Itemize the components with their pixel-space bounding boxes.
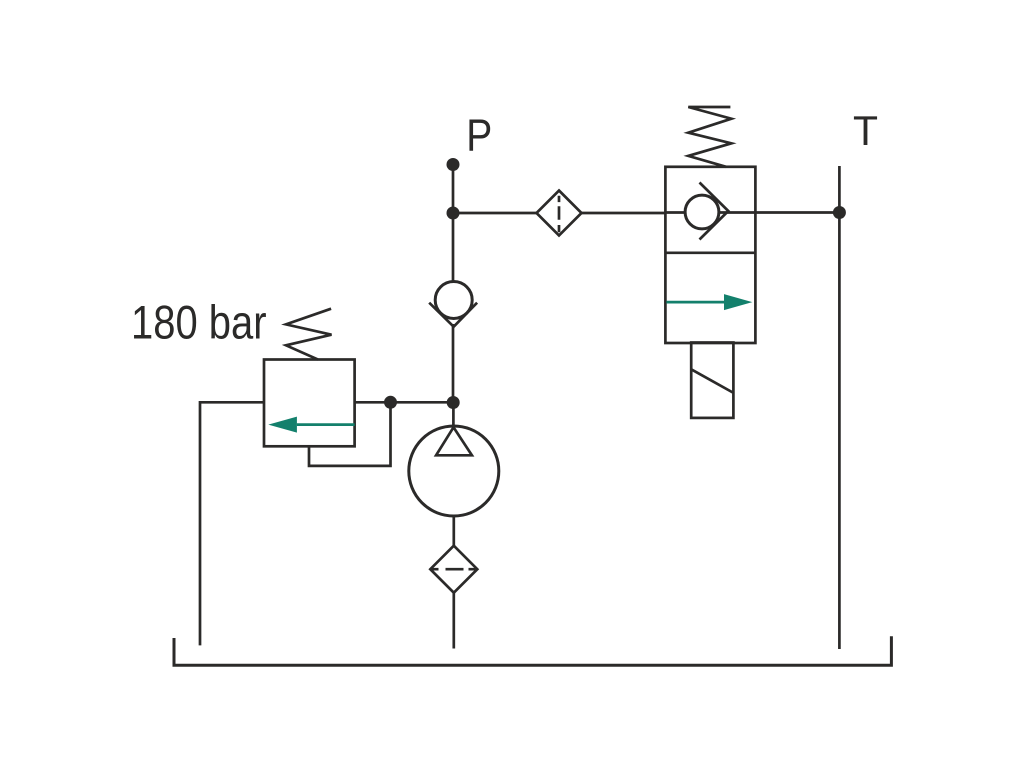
wire pump junction to pump inlet (452, 403, 455, 428)
wire pump to strainer (452, 516, 455, 546)
filter F1 dashed element (558, 196, 561, 233)
wire P vertical down to check valve (452, 165, 455, 283)
strainer F2 diamond (430, 546, 477, 593)
node pump junction dot (447, 396, 460, 409)
wire valve V1 to T line (756, 211, 840, 214)
valve V1 check seat (700, 183, 729, 240)
node P junction dot (447, 207, 460, 220)
solenoid S1 box (691, 343, 733, 418)
check valve CV1 seat (429, 303, 477, 327)
wire strainer to tank (452, 593, 455, 649)
valve V1 body (665, 167, 755, 343)
svg-text:P: P (466, 109, 492, 160)
relief valve RV1 body (264, 360, 355, 447)
valve V1 check ball (685, 195, 719, 229)
tank T1 (174, 636, 891, 665)
relief valve RV1 flow arrow (268, 417, 354, 433)
svg-text:T: T (853, 107, 878, 154)
valve V1 spring (688, 107, 731, 167)
filter F1 diamond (537, 191, 582, 236)
svg-text:180 bar: 180 bar (131, 296, 267, 349)
wire relief valve RV1 to pump junction (355, 401, 454, 404)
wire pilot line (309, 402, 391, 466)
valve V1 divider (665, 251, 755, 254)
strainer F2 dashed element (432, 568, 475, 571)
relief valve RV1 spring (286, 309, 332, 360)
wire filter F1 to valve V1 (582, 212, 666, 215)
check valve CV1 ball (435, 282, 472, 319)
pump M1 circle (409, 426, 499, 516)
wire T vertical line (838, 166, 841, 649)
valve V1 flow arrow (666, 294, 752, 310)
node P terminal dot (447, 158, 460, 171)
wire horizontal P junction to filter F1 (453, 212, 537, 215)
node T junction dot (833, 206, 846, 219)
valve V1 port line through top cell (665, 211, 755, 214)
pump M1 triangle (436, 427, 472, 455)
solenoid S1 diagonal (692, 370, 733, 393)
wire check valve CV1 to pump junction (452, 324, 455, 403)
wire drain line left (200, 402, 264, 645)
node pilot junction dot (384, 396, 397, 409)
